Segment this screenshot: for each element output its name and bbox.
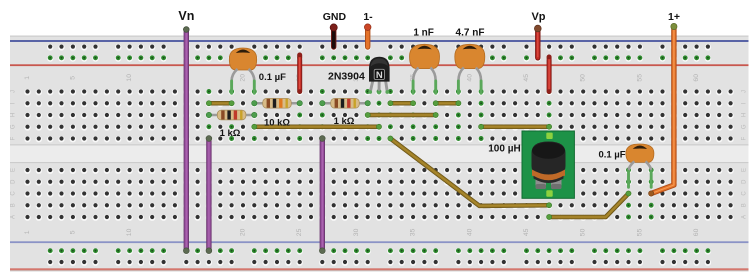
- wire GND: [323, 11, 347, 47]
- svg-text:40: 40: [466, 228, 473, 236]
- svg-text:50: 50: [580, 228, 587, 236]
- svg-text:D: D: [742, 179, 748, 184]
- svg-text:Vp: Vp: [531, 11, 545, 23]
- svg-text:E: E: [11, 168, 17, 172]
- svg-text:A: A: [11, 215, 17, 219]
- svg-text:0.1 µF: 0.1 µF: [598, 150, 625, 161]
- wire purple F27 to bottom rail: [319, 136, 325, 254]
- resistor R1 1k (H17-H21): [206, 110, 257, 139]
- column numbers: [24, 74, 700, 236]
- svg-text:5: 5: [69, 230, 76, 234]
- capacitor C2 1nF (J35-J37): [410, 28, 440, 94]
- svg-text:C: C: [742, 191, 748, 196]
- svg-text:1+: 1+: [668, 11, 680, 23]
- transistor Q1 2N3904 (J31,J32,J33): [328, 57, 390, 95]
- svg-text:1 kΩ: 1 kΩ: [220, 128, 241, 139]
- wire G21-G32: [252, 124, 382, 129]
- resistor R2 10k (I21-I25): [252, 98, 303, 128]
- wire Vp (red): [531, 11, 545, 58]
- svg-text:N: N: [376, 70, 383, 81]
- wire 1+ (orange): [649, 11, 680, 196]
- svg-text:25: 25: [296, 228, 303, 236]
- svg-text:1 kΩ: 1 kΩ: [334, 116, 355, 127]
- svg-text:GND: GND: [323, 11, 347, 23]
- svg-text:A: A: [742, 215, 748, 219]
- wire H31-H37: [365, 112, 438, 117]
- svg-text:45: 45: [523, 74, 530, 82]
- svg-text:20: 20: [240, 228, 247, 236]
- svg-text:10 kΩ: 10 kΩ: [264, 118, 290, 129]
- wire A47-C54: [547, 191, 632, 220]
- svg-text:40: 40: [466, 74, 473, 82]
- wire Vn (purple) to bottom rail: [178, 9, 194, 254]
- svg-text:G: G: [11, 124, 17, 129]
- svg-text:H: H: [11, 113, 17, 117]
- svg-text:D: D: [11, 179, 17, 184]
- svg-text:100 µH: 100 µH: [488, 143, 520, 154]
- wire red rail to J25: [297, 53, 302, 94]
- svg-text:35: 35: [410, 228, 417, 236]
- wire jumper I17-I19: [206, 101, 234, 106]
- svg-text:1 nF: 1 nF: [413, 28, 434, 39]
- capacitor C1 0.1uF (J19-J21): [229, 48, 286, 93]
- svg-text:60: 60: [693, 74, 700, 82]
- svg-text:J: J: [11, 90, 17, 93]
- capacitor C4 0.1uF (D54-D56): [598, 144, 653, 187]
- svg-text:10: 10: [126, 74, 133, 82]
- svg-text:B: B: [742, 203, 748, 207]
- svg-text:50: 50: [580, 74, 587, 82]
- svg-text:B: B: [11, 203, 17, 207]
- wire jumper I33-I35: [388, 101, 416, 106]
- svg-text:E: E: [742, 168, 748, 172]
- svg-text:F: F: [742, 136, 748, 140]
- svg-text:Vn: Vn: [178, 9, 194, 23]
- svg-text:1: 1: [24, 230, 31, 234]
- svg-text:45: 45: [523, 228, 530, 236]
- wire purple F17 to bottom rail: [206, 136, 212, 254]
- wire G41-G47: [479, 124, 552, 129]
- svg-text:55: 55: [636, 228, 643, 236]
- svg-text:20: 20: [240, 74, 247, 82]
- svg-text:C: C: [11, 191, 17, 196]
- svg-text:55: 55: [636, 74, 643, 82]
- svg-text:60: 60: [693, 228, 700, 236]
- wire F33-B47 (diagonal): [388, 136, 552, 208]
- resistor R3 1k (I27-I31): [320, 98, 371, 127]
- svg-text:0.1 µF: 0.1 µF: [259, 72, 286, 83]
- inductor L1 100uH (F47-C47): [488, 131, 574, 198]
- svg-text:1-: 1-: [363, 11, 373, 23]
- svg-text:H: H: [742, 113, 748, 117]
- svg-text:J: J: [742, 90, 748, 93]
- row letters: [11, 90, 748, 219]
- svg-text:2N3904: 2N3904: [328, 71, 365, 83]
- svg-text:F: F: [11, 136, 17, 140]
- wire red rail to J47: [547, 55, 552, 94]
- svg-text:5: 5: [69, 76, 76, 80]
- capacitor C3 4.7nF (J39-J41): [455, 28, 485, 94]
- svg-text:1: 1: [24, 76, 31, 80]
- svg-text:30: 30: [353, 228, 360, 236]
- svg-text:4.7 nF: 4.7 nF: [456, 28, 485, 39]
- wire 1- (orange): [363, 11, 373, 47]
- svg-text:G: G: [742, 124, 748, 129]
- svg-text:10: 10: [126, 228, 133, 236]
- wire jumper I37-I39: [433, 101, 461, 106]
